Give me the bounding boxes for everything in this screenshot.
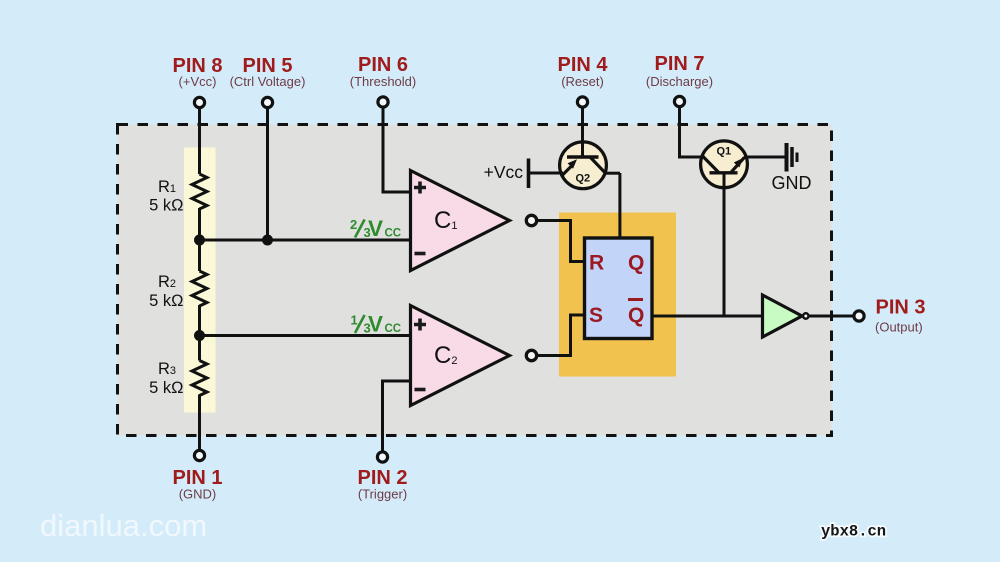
wire: Q2 collector to flip-flop column <box>604 172 620 175</box>
net label 1/3 Vcc <box>351 312 402 337</box>
svg-text:1: 1 <box>351 313 358 328</box>
Q1 emitter (arrow outward) <box>731 157 745 172</box>
svg-text:Q2: Q2 <box>576 173 591 185</box>
svg-text:2: 2 <box>350 217 357 232</box>
wire: PIN5 lead down to 2/3Vcc node <box>266 109 269 241</box>
wire: PIN2 lead to C2 - input <box>383 381 411 451</box>
+Vcc supply terminal bar <box>527 159 531 189</box>
comparator C1 <box>411 171 510 271</box>
svg-text:PIN 3: PIN 3 <box>876 297 926 319</box>
wire: R3 to PIN1 <box>198 395 201 450</box>
flip-flop highlight (orange) <box>559 213 676 377</box>
svg-text:V: V <box>368 216 383 241</box>
svg-text:PIN 4: PIN 4 <box>557 54 608 76</box>
PIN 7 terminal <box>674 96 684 106</box>
svg-text:(Discharge): (Discharge) <box>646 74 713 89</box>
IC body (dashed box) <box>118 125 832 436</box>
C1 + input mark <box>414 182 426 194</box>
svg-text:Q: Q <box>628 252 644 275</box>
transistor Q1 (discharge, NPN) <box>701 141 748 188</box>
svg-text:S: S <box>589 304 603 327</box>
svg-text:CC: CC <box>385 323 402 335</box>
svg-text:(Ctrl Voltage): (Ctrl Voltage) <box>230 74 306 89</box>
C1 - input mark <box>415 252 426 256</box>
svg-text:GND: GND <box>772 173 812 193</box>
svg-text:(Trigger): (Trigger) <box>358 487 407 502</box>
node: R1-R2 junction <box>194 235 205 246</box>
svg-text:PIN 7: PIN 7 <box>654 53 704 75</box>
svg-text:5 kΩ: 5 kΩ <box>149 292 183 310</box>
node: PIN5 junction <box>262 235 273 246</box>
wire: C2 output to flip-flop S input <box>537 315 585 356</box>
resistor R2 <box>192 271 207 306</box>
wire: 2/3Vcc line to C1 inverting input <box>200 239 411 242</box>
Q2 base bar <box>567 155 599 158</box>
flip-flop latch body <box>585 238 653 339</box>
wire: Q2 emitter down to flip-flop top <box>618 173 621 240</box>
wire: PIN7 lead to Q1 collector <box>680 108 703 158</box>
wire: PIN8 lead into R1 <box>198 109 201 175</box>
ground symbol (rotated) <box>785 143 789 172</box>
PIN 1 terminal <box>194 450 204 460</box>
net label 2/3 Vcc <box>350 216 401 241</box>
wire: R1 to R2 segment <box>198 208 201 271</box>
PIN 6 terminal <box>378 97 388 107</box>
Q1 collector <box>703 156 719 172</box>
svg-text:ybx8.cn: ybx8.cn <box>821 523 886 541</box>
PIN 5 terminal <box>262 97 272 107</box>
C1 output bubble <box>526 215 536 225</box>
wire: R2 to R3 segment <box>198 305 201 361</box>
wire: 1/3Vcc line to C2 non-inverting input <box>200 334 411 337</box>
svg-text:(Threshold): (Threshold) <box>350 74 416 89</box>
Q1 base bar <box>710 171 738 174</box>
wire: buffer to PIN3 <box>809 315 855 318</box>
PIN 2 terminal <box>377 452 387 462</box>
PIN 3 terminal <box>854 311 864 321</box>
wire: +Vcc to Q2 emitter <box>529 172 564 175</box>
resistor R3 <box>192 361 207 396</box>
svg-text:(GND): (GND) <box>179 487 217 502</box>
wire: PIN4 lead into Q2 base <box>581 109 584 158</box>
wire: Q1 emitter to ground <box>744 156 785 159</box>
Q2 emitter (arrow toward base) <box>562 166 572 176</box>
svg-text:5 kΩ: 5 kΩ <box>149 379 183 397</box>
voltage divider highlight strip <box>184 148 216 413</box>
C2 output bubble <box>526 350 536 360</box>
output buffer <box>763 295 803 337</box>
wire: Q1 base lead inside circle <box>723 173 726 189</box>
svg-text:(Output): (Output) <box>875 320 923 335</box>
resistor R1 <box>192 174 207 209</box>
PIN 8 terminal <box>194 97 204 107</box>
Q2 collector <box>591 158 606 174</box>
svg-text:Q1: Q1 <box>717 146 732 158</box>
C2 - input mark <box>415 388 426 392</box>
wire: Qbar output to buffer <box>652 315 762 318</box>
wire: PIN4 lead inside Q2 to base bar <box>581 141 584 157</box>
svg-text:V: V <box>368 312 383 337</box>
svg-text:PIN 6: PIN 6 <box>358 54 408 76</box>
svg-text:(+Vcc): (+Vcc) <box>179 74 217 89</box>
svg-text:R: R <box>589 252 604 275</box>
svg-text:dianlua.com: dianlua.com <box>40 508 207 543</box>
comparator C2 <box>411 306 510 406</box>
flip-flop Qbar overline <box>628 298 643 301</box>
wire: Q1 base lead down to output net <box>723 173 726 316</box>
svg-text:+Vcc: +Vcc <box>484 162 524 182</box>
svg-text:Q: Q <box>628 304 644 327</box>
wire: PIN6 lead to C1 + input <box>383 109 411 193</box>
wire: C1 output to flip-flop R input <box>537 221 585 262</box>
buffer inversion bubble <box>803 313 808 318</box>
svg-text:(Reset): (Reset) <box>561 74 604 89</box>
svg-text:5 kΩ: 5 kΩ <box>149 197 183 215</box>
node: R2-R3 junction <box>194 330 205 341</box>
svg-text:CC: CC <box>385 228 402 240</box>
PIN 4 terminal <box>577 97 587 107</box>
C2 + input mark <box>414 319 426 331</box>
transistor Q2 (reset, PNP) <box>560 142 607 189</box>
